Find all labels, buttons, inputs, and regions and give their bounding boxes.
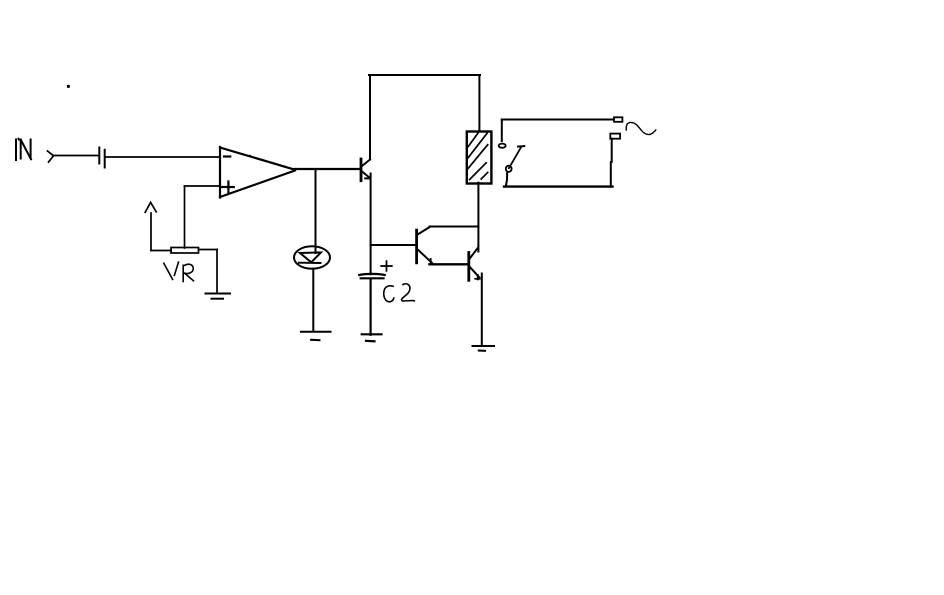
AC terminal 1 xyxy=(614,117,622,122)
wire VR right down xyxy=(216,250,218,294)
relay lever xyxy=(509,147,521,168)
AC terminal 2 xyxy=(610,134,620,139)
wire Q1 collector up xyxy=(369,75,371,160)
stray dot xyxy=(67,85,70,88)
resistor VR xyxy=(171,248,199,254)
wire C1 to op-amp xyxy=(106,156,221,158)
transistor Q2 xyxy=(417,227,433,263)
relay lever pivot xyxy=(506,166,512,172)
wire VR right lead xyxy=(199,249,218,251)
wire Q2 emitter to Q3 base xyxy=(429,263,468,265)
wire plus input down to VR wiper xyxy=(184,186,186,248)
LED D1 xyxy=(294,246,330,268)
wire op-amp output xyxy=(295,168,361,170)
wire LED to ground xyxy=(312,269,314,332)
ground LED xyxy=(301,332,331,340)
wire Q2 collector horizontal xyxy=(430,226,479,228)
transistor Q1 xyxy=(361,159,370,181)
ground Q3 xyxy=(473,346,495,351)
capacitor C2 plus sign xyxy=(381,261,392,271)
transistor Q3 xyxy=(469,248,480,281)
AC source squiggle xyxy=(626,122,656,134)
wire relay coil down xyxy=(477,183,479,252)
label IN xyxy=(16,139,31,160)
wire VR left up xyxy=(150,213,152,251)
wire junction down to LED xyxy=(315,169,317,253)
label VR xyxy=(164,262,194,281)
relay fixed contact xyxy=(499,144,506,148)
wire Q2 base xyxy=(371,244,416,246)
relay lever arrow tip xyxy=(518,145,524,148)
input chevron xyxy=(48,151,54,162)
capacitor C2 xyxy=(359,274,384,278)
wire contact right vertical xyxy=(610,139,613,187)
wire pivot down xyxy=(506,172,507,186)
capacitor C1 xyxy=(99,148,104,168)
wire Q3 emitter down xyxy=(481,274,483,347)
wire contact top line xyxy=(502,119,614,121)
arrow up at VR xyxy=(145,202,156,212)
ground C2 xyxy=(362,334,382,341)
wire input to C1 xyxy=(54,155,99,157)
wire contact bottom line xyxy=(504,185,613,187)
wire junction down to C2 xyxy=(370,245,372,274)
wire op-amp plus input xyxy=(185,185,221,187)
wire C2 to ground xyxy=(370,279,372,335)
wire VR left lead xyxy=(151,250,171,252)
wire Q1 emitter down xyxy=(370,174,372,246)
relay coil K1 xyxy=(467,132,492,184)
ground VR xyxy=(206,294,231,299)
wire relay contact left vertical xyxy=(501,120,503,142)
label C2 xyxy=(384,284,415,302)
wire top rail down to relay coil xyxy=(478,75,480,131)
op-amp U1 xyxy=(220,147,295,198)
wire top rail xyxy=(369,74,480,76)
